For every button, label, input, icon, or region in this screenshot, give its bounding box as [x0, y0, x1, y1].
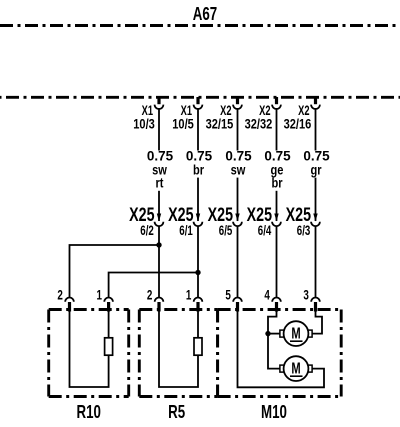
X25 6/1 socket (cup) [194, 222, 203, 226]
motor M10 upper (circle with brushes) [280, 321, 312, 346]
svg-text:32/16: 32/16 [284, 116, 312, 131]
pin number 3 label at x=315.5 [303, 287, 309, 303]
svg-text:5: 5 [225, 287, 231, 303]
X25 6/2 socket (cup) [155, 222, 164, 226]
component pin 2 socket at x=159.0 (cup) [155, 297, 164, 301]
wire from X25 6/3 down to M10 pin 3 [315, 226, 317, 298]
X25 6/5 socket (cup) [233, 222, 242, 226]
resistor element inside R10 [105, 338, 113, 355]
svg-text:32/32: 32/32 [245, 116, 273, 131]
label X1 10/3 [133, 105, 155, 132]
pin number 1 label at x=108.6 [97, 287, 103, 303]
R10 internal wiring [70, 312, 109, 388]
wire 2: from A67 X1 10/5 down to X25 [197, 108, 199, 221]
blower regulator R10 box border (dash-dot) [49, 310, 129, 397]
component pin 4 socket at x=276.5 (cup) [272, 298, 281, 302]
svg-text:3: 3 [303, 287, 309, 303]
svg-text:X25: X25 [168, 204, 193, 225]
wire 1 gauge/colour label 0.75 sw rt [145, 149, 174, 191]
svg-text:A67: A67 [193, 4, 217, 25]
wire 3 gauge/colour label 0.75 sw [224, 149, 253, 178]
wire 5: from A67 X2 32/16 down to X25 [315, 108, 317, 221]
svg-text:6/2: 6/2 [140, 224, 154, 239]
X25 connector 6/3 label [286, 204, 311, 238]
svg-text:4: 4 [264, 287, 270, 303]
control unit A67 label [193, 4, 217, 25]
X25 connector 6/2 label [129, 204, 154, 238]
component pin 2 stub at x=159.0 [157, 302, 160, 312]
pin number 5 label at x=237.5 [225, 287, 231, 303]
component pin 2 socket at x=69.5 (cup) [65, 297, 74, 301]
A67 pin X2 32/16 (pin stub at boundary line) [314, 97, 317, 104]
svg-text:10/5: 10/5 [172, 116, 194, 131]
component pin 1 socket at x=198.0 (cup) [194, 297, 203, 301]
svg-text:32/15: 32/15 [206, 116, 234, 131]
svg-text:X25: X25 [129, 204, 154, 225]
A67 connector boundary line (dash-dot) [0, 96, 400, 99]
A67 pin X2 32/32 (pin stub at boundary line) [275, 97, 278, 104]
wire 4 gauge/colour label 0.75 ge br [263, 149, 292, 191]
svg-text:2: 2 [147, 287, 153, 303]
svg-text:0.75: 0.75 [303, 149, 330, 164]
pin number 4 label at x=276.5 [264, 287, 270, 303]
svg-text:0.75: 0.75 [186, 149, 213, 164]
svg-text:M: M [291, 325, 300, 342]
wire 3: from A67 X2 32/15 down to X25 [237, 108, 239, 221]
wire 4: from A67 X2 32/32 down to X25 [276, 108, 278, 221]
component pin 4 stub at x=276.5 [275, 302, 278, 312]
wire 5 gauge/colour label 0.75 gr [302, 149, 331, 178]
wire 5 arrow tip into X25 socket [313, 214, 317, 222]
wire 2 arrow tip into X25 socket [196, 214, 200, 222]
svg-text:6/3: 6/3 [297, 224, 311, 239]
svg-text:gr: gr [310, 162, 321, 177]
connector socket X2 32/32 (cup) [272, 105, 281, 109]
A67 pin X2 32/15 (pin stub at boundary line) [236, 97, 239, 104]
svg-text:0.75: 0.75 [264, 149, 291, 164]
connector socket X2 32/15 (cup) [233, 105, 242, 109]
label X2 32/15 [206, 105, 234, 132]
resistor unit R5 box border (dash-dot) [139, 310, 217, 397]
A67 pin X1 10/5 (pin stub at boundary line) [196, 97, 199, 104]
svg-text:M10: M10 [261, 402, 287, 423]
label R10 [76, 402, 100, 423]
X25 connector 6/1 label [168, 204, 193, 238]
pin number 2 label at x=69.5 [57, 287, 63, 303]
wire from X25 6/1 down to R5 pin 1 [197, 226, 199, 298]
component pin 3 socket at x=315.5 (cup) [311, 298, 320, 302]
svg-text:1: 1 [97, 287, 103, 303]
component pin 5 socket at x=237.5 (cup) [233, 297, 242, 301]
svg-text:M: M [291, 360, 300, 377]
svg-text:6/4: 6/4 [258, 224, 272, 239]
M10 pin 4 internal wire (common feed) [268, 312, 280, 369]
svg-text:10/3: 10/3 [133, 116, 155, 131]
svg-text:X25: X25 [208, 204, 233, 225]
X25 connector 6/5 label [208, 204, 233, 238]
svg-text:X25: X25 [247, 204, 272, 225]
svg-text:br: br [271, 176, 282, 191]
wire from X25 6/5 down to M10 pin 5 [237, 226, 239, 298]
motor M10 lower (circle with brushes) [280, 356, 312, 381]
component pin 1 stub at x=108.6 [107, 302, 110, 312]
svg-text:0.75: 0.75 [225, 149, 252, 164]
component pin 1 stub at x=198.0 [196, 302, 199, 312]
component pin 3 stub at x=315.5 [314, 302, 317, 312]
connector socket X1 10/3 (cup) [155, 105, 164, 109]
A67 pin X1 10/3 (pin stub at boundary line) [157, 97, 160, 104]
label R5 [168, 402, 185, 423]
label X1 10/5 [172, 105, 194, 132]
wire from X25 6/4 down to M10 pin 4 [276, 226, 278, 298]
A67 box bottom border (dash-dot line) [0, 24, 400, 27]
component pin 1 socket at x=108.6 (cup) [104, 298, 113, 302]
wire 1 arrow tip into X25 socket [157, 214, 161, 222]
X25 6/3 socket (cup) [311, 222, 320, 226]
R5 internal wiring [159, 312, 198, 388]
wire 4 arrow tip into X25 socket [274, 214, 278, 222]
connector socket X2 32/16 (cup) [311, 105, 320, 109]
blower motor unit M10 box border (dash-dot) [218, 310, 342, 397]
X25 connector 6/4 label [247, 204, 272, 238]
component pin 2 stub at x=69.5 [68, 302, 71, 312]
svg-text:2: 2 [57, 287, 63, 303]
label X2 32/16 [284, 105, 312, 132]
label X2 32/32 [245, 105, 273, 132]
svg-text:6/5: 6/5 [219, 224, 233, 239]
M10 pin 5 internal wire to lower motor [238, 312, 325, 388]
wire 3 arrow tip into X25 socket [235, 214, 239, 222]
wire 1: from A67 X1 10/3 down to X25 [158, 108, 160, 221]
wire from X25 6/2 down to R5 pin 2 [158, 226, 160, 298]
junction node on wire 6/1 [195, 270, 200, 275]
svg-text:br: br [193, 162, 204, 177]
svg-text:1: 1 [186, 287, 192, 303]
connector socket X1 10/5 (cup) [194, 105, 203, 109]
svg-text:sw: sw [231, 162, 246, 177]
svg-text:X25: X25 [286, 204, 311, 225]
component pin 5 stub at x=237.5 [236, 302, 239, 312]
svg-text:0.75: 0.75 [147, 149, 174, 164]
X25 6/4 socket (cup) [272, 222, 281, 226]
svg-text:R5: R5 [168, 402, 185, 423]
pin number 1 label at x=198.0 [186, 287, 192, 303]
svg-text:6/1: 6/1 [179, 224, 193, 239]
label M10 [261, 402, 287, 423]
resistor element inside R5 [194, 338, 202, 355]
junction node inside M10 [265, 331, 270, 336]
svg-text:rt: rt [156, 176, 164, 191]
pin number 2 label at x=159.0 [147, 287, 153, 303]
wire 2 gauge/colour label 0.75 br [184, 149, 213, 178]
svg-text:R10: R10 [76, 402, 100, 423]
junction node on wire 6/2 [156, 242, 161, 247]
branch wire from junction to R10 pin 2 [70, 245, 160, 298]
M10 pin 3 internal wire to upper motor [312, 312, 322, 334]
branch wire from junction to R10 pin 1 [109, 273, 198, 298]
